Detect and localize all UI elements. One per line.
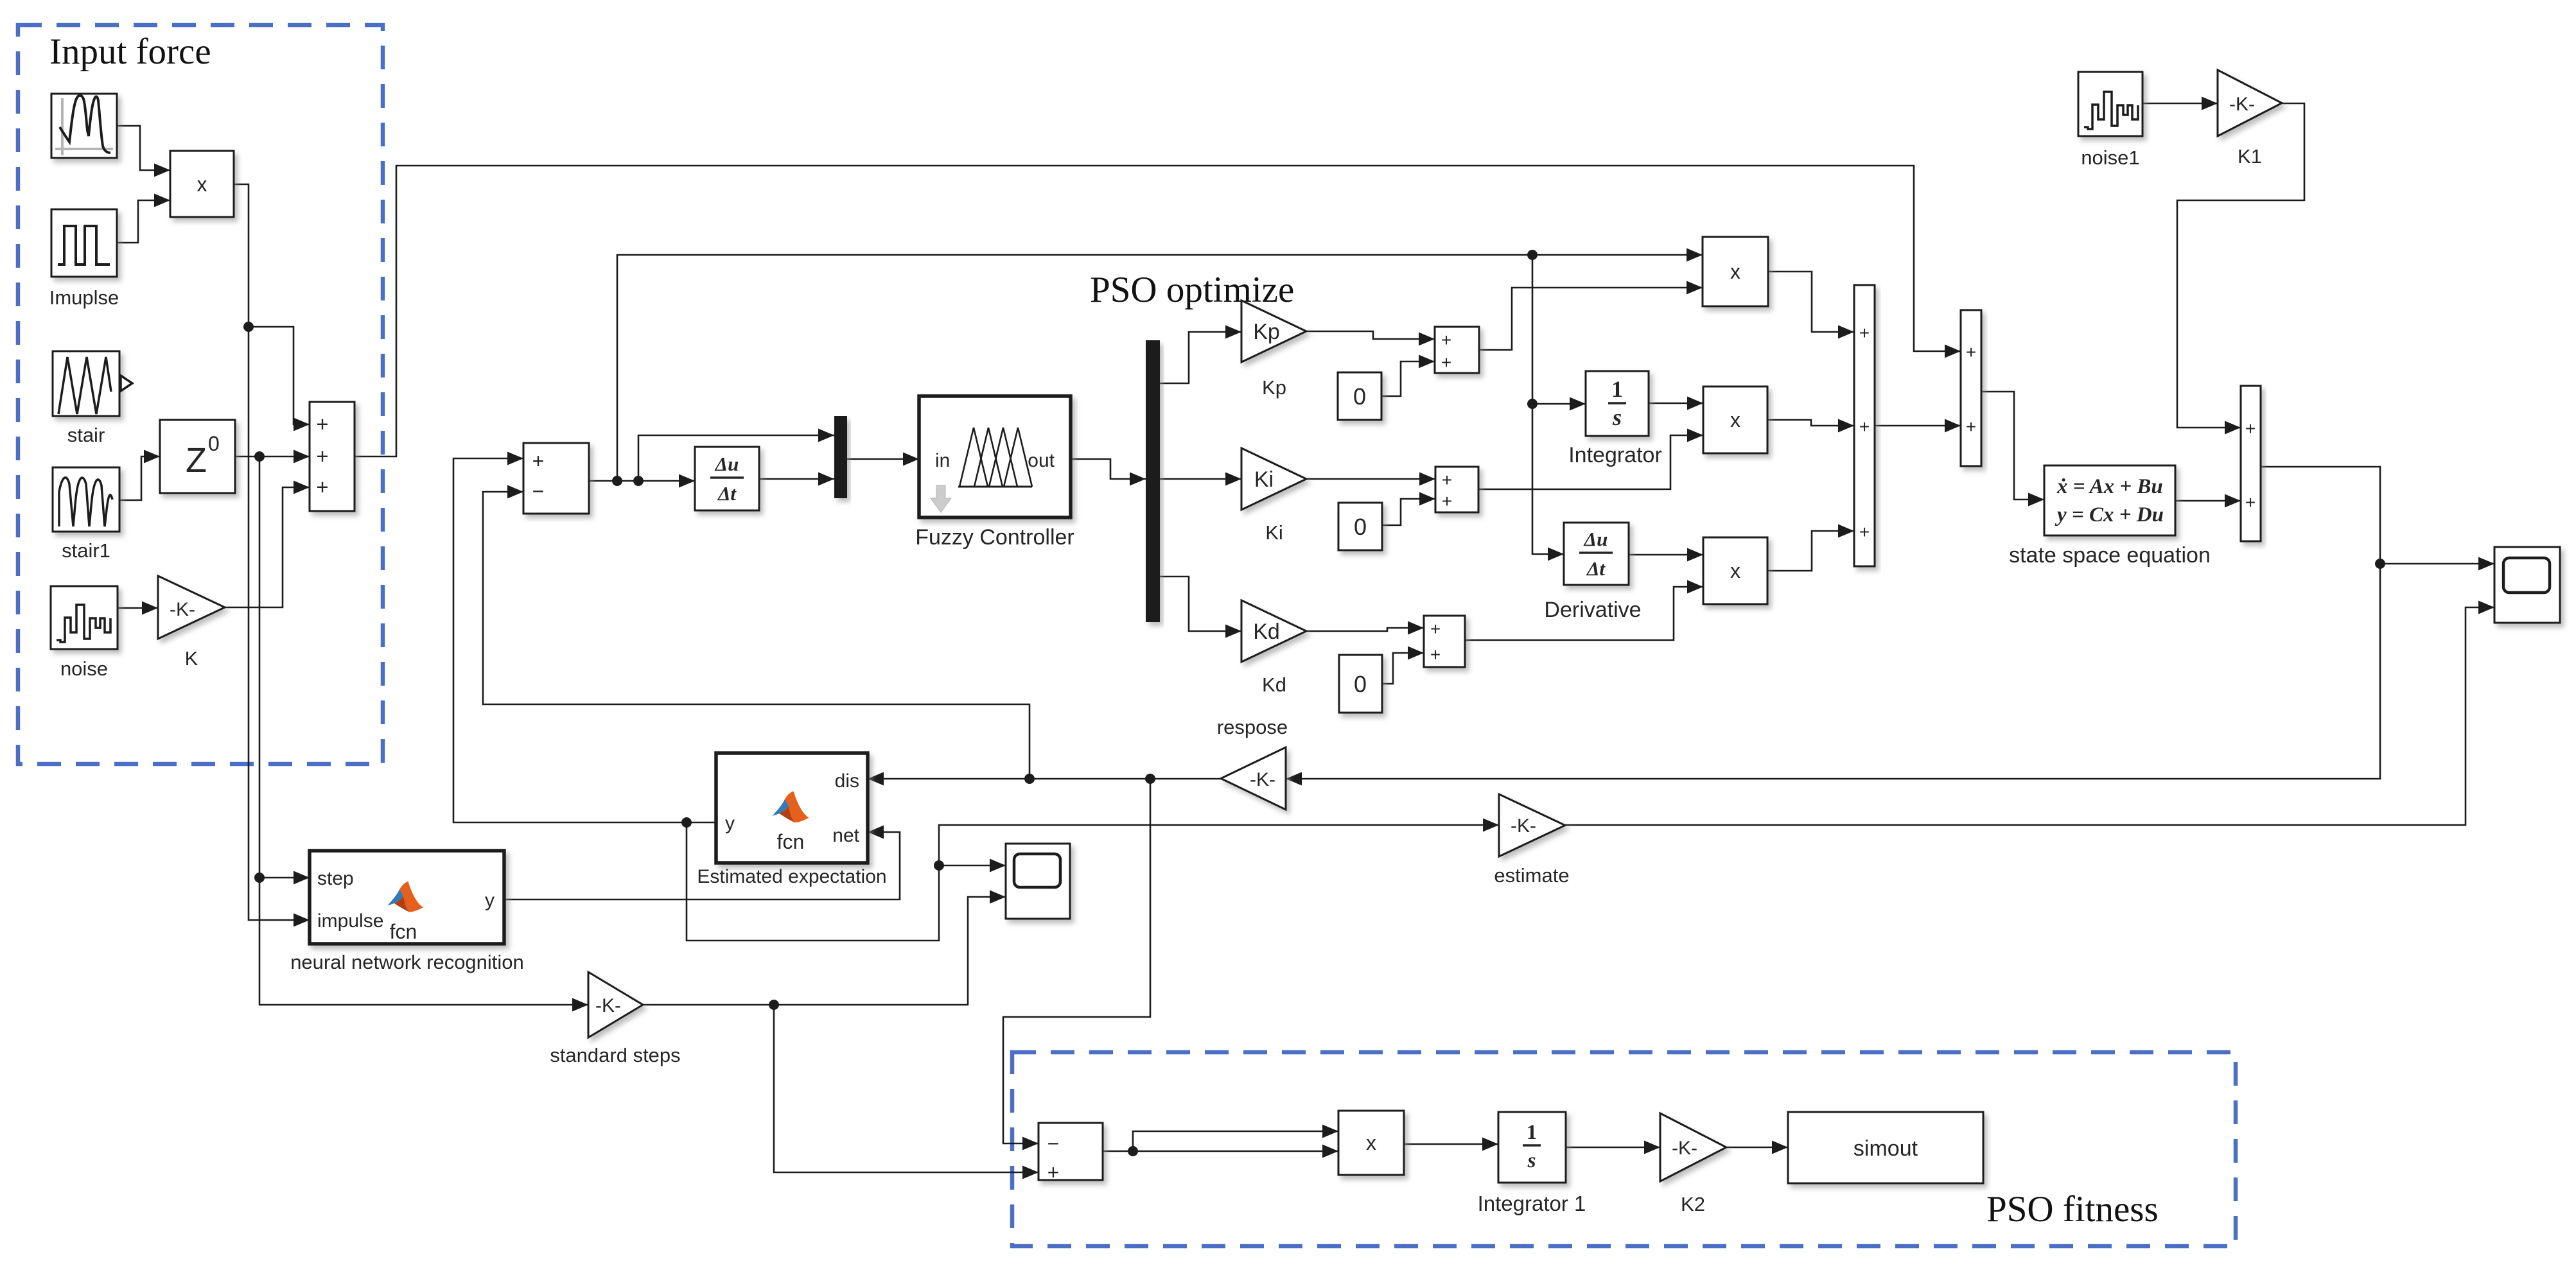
svg-text:+: + — [2245, 492, 2256, 512]
svg-text:-K-: -K- — [1511, 815, 1536, 837]
svg-text:+: + — [2245, 419, 2256, 439]
svg-text:x: x — [1730, 260, 1740, 283]
svg-text:noise1: noise1 — [2081, 146, 2139, 169]
svg-text:−: − — [1047, 1132, 1060, 1155]
svg-text:K2: K2 — [1681, 1193, 1705, 1215]
svg-text:+: + — [1442, 491, 1452, 511]
svg-text:Fuzzy Controller: Fuzzy Controller — [915, 525, 1074, 550]
svg-text:0: 0 — [1354, 671, 1367, 697]
svg-text:Δt: Δt — [717, 482, 737, 505]
svg-text:simout: simout — [1853, 1136, 1918, 1161]
svg-text:+: + — [1966, 342, 1976, 362]
svg-text:respose: respose — [1217, 716, 1288, 738]
svg-text:PSO fitness: PSO fitness — [1986, 1189, 2159, 1229]
svg-text:-K-: -K- — [595, 995, 621, 1016]
svg-text:+: + — [1441, 352, 1451, 372]
svg-text:Z: Z — [186, 441, 207, 480]
svg-text:y: y — [725, 813, 735, 834]
svg-text:-K-: -K- — [170, 599, 195, 620]
svg-text:1: 1 — [1527, 1121, 1538, 1144]
svg-text:+: + — [1966, 417, 1976, 437]
svg-text:estimate: estimate — [1494, 864, 1569, 887]
svg-text:x: x — [1366, 1131, 1376, 1154]
svg-text:+: + — [1441, 330, 1451, 350]
svg-text:0: 0 — [1353, 383, 1366, 410]
svg-text:Ki: Ki — [1265, 521, 1283, 544]
svg-text:fcn: fcn — [390, 920, 417, 943]
svg-text:stair: stair — [67, 424, 105, 446]
svg-text:noise: noise — [60, 657, 108, 680]
svg-text:y = Cx + Du: y = Cx + Du — [2055, 503, 2164, 526]
svg-text:Kd: Kd — [1253, 620, 1280, 644]
svg-text:-K-: -K- — [1250, 769, 1275, 790]
svg-text:impulse: impulse — [317, 910, 383, 932]
svg-text:+: + — [1442, 470, 1452, 490]
svg-text:neural network recognition: neural network recognition — [290, 951, 524, 973]
svg-text:Kd: Kd — [1262, 673, 1286, 696]
svg-text:-K-: -K- — [2229, 94, 2255, 115]
svg-text:Integrator: Integrator — [1568, 443, 1662, 467]
svg-text:+: + — [316, 475, 328, 499]
svg-text:K: K — [185, 647, 198, 670]
svg-text:ẋ = Ax + Bu: ẋ = Ax + Bu — [2056, 475, 2163, 498]
svg-text:+: + — [1859, 323, 1870, 343]
svg-text:Δu: Δu — [714, 453, 739, 475]
svg-text:Δu: Δu — [1583, 528, 1608, 550]
svg-text:in: in — [935, 450, 950, 471]
svg-text:step: step — [317, 868, 354, 889]
svg-text:+: + — [316, 444, 328, 468]
svg-text:out: out — [1028, 450, 1055, 471]
svg-text:PSO optimize: PSO optimize — [1090, 270, 1294, 310]
svg-text:Ki: Ki — [1254, 467, 1274, 492]
svg-text:Input force: Input force — [49, 31, 211, 72]
svg-text:+: + — [1859, 522, 1870, 542]
svg-text:−: − — [532, 480, 545, 503]
svg-text:fcn: fcn — [777, 830, 805, 853]
svg-text:0: 0 — [1354, 514, 1367, 540]
svg-text:0: 0 — [208, 432, 220, 455]
svg-text:Δt: Δt — [1586, 557, 1606, 580]
svg-text:+: + — [532, 449, 545, 473]
svg-text:net: net — [832, 825, 859, 846]
svg-text:Imuplse: Imuplse — [49, 286, 119, 309]
svg-text:s: s — [1527, 1149, 1536, 1172]
svg-text:+: + — [1859, 417, 1870, 437]
svg-text:1: 1 — [1611, 376, 1623, 402]
svg-text:+: + — [316, 412, 328, 436]
svg-text:standard steps: standard steps — [550, 1044, 680, 1066]
svg-text:stair1: stair1 — [62, 539, 110, 562]
svg-text:+: + — [1430, 619, 1441, 639]
svg-text:y: y — [485, 890, 495, 911]
svg-text:dis: dis — [835, 770, 859, 792]
svg-text:Integrator 1: Integrator 1 — [1478, 1192, 1586, 1215]
svg-text:+: + — [1430, 645, 1441, 664]
svg-text:+: + — [1047, 1161, 1060, 1184]
svg-text:state space equation: state space equation — [2009, 543, 2211, 568]
svg-text:Estimated expectation: Estimated expectation — [697, 866, 886, 887]
svg-text:s: s — [1612, 404, 1622, 430]
svg-text:Kp: Kp — [1262, 376, 1286, 399]
svg-text:x: x — [1730, 408, 1740, 431]
svg-text:-K-: -K- — [1672, 1138, 1697, 1159]
svg-text:Kp: Kp — [1253, 320, 1280, 344]
svg-text:x: x — [1730, 559, 1740, 582]
svg-text:x: x — [197, 173, 207, 196]
svg-text:Derivative: Derivative — [1544, 598, 1641, 622]
svg-text:K1: K1 — [2238, 145, 2262, 168]
